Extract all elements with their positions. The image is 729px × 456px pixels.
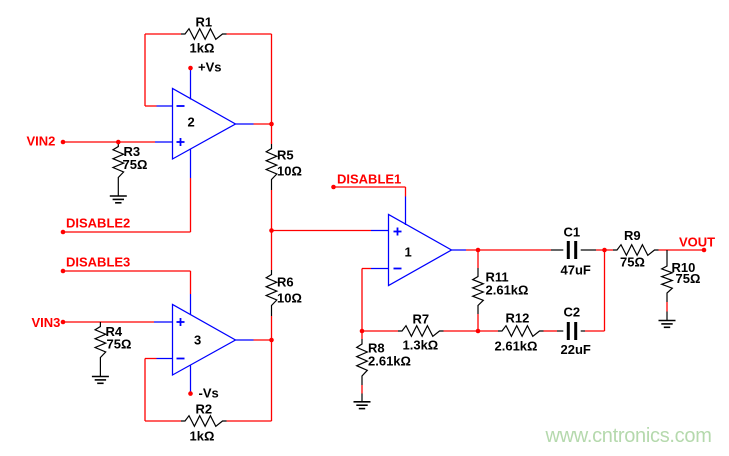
svg-text:DISABLE2: DISABLE2 xyxy=(66,216,130,231)
svg-text:47uF: 47uF xyxy=(561,263,591,278)
svg-text:R2: R2 xyxy=(196,402,213,417)
svg-text:R1: R1 xyxy=(196,15,213,30)
svg-text:1: 1 xyxy=(405,245,412,260)
svg-text:VIN2: VIN2 xyxy=(27,134,56,149)
svg-text:1.3kΩ: 1.3kΩ xyxy=(403,338,439,353)
svg-text:2.61kΩ: 2.61kΩ xyxy=(486,283,529,298)
svg-text:2: 2 xyxy=(188,115,195,130)
svg-text:10Ω: 10Ω xyxy=(277,291,302,306)
svg-text:10Ω: 10Ω xyxy=(277,164,302,179)
svg-text:DISABLE1: DISABLE1 xyxy=(337,172,401,187)
svg-text:22uF: 22uF xyxy=(561,342,591,357)
svg-text:DISABLE3: DISABLE3 xyxy=(66,255,130,270)
svg-text:C1: C1 xyxy=(564,225,581,240)
svg-text:75Ω: 75Ω xyxy=(620,255,645,270)
svg-text:R9: R9 xyxy=(624,228,641,243)
svg-text:2.61kΩ: 2.61kΩ xyxy=(368,354,411,369)
svg-text:75Ω: 75Ω xyxy=(676,271,701,286)
svg-text:75Ω: 75Ω xyxy=(107,337,132,352)
svg-text:-Vs: -Vs xyxy=(199,386,219,401)
svg-text:R5: R5 xyxy=(277,148,294,163)
svg-text:+Vs: +Vs xyxy=(198,60,222,75)
svg-text:VOUT: VOUT xyxy=(679,235,715,250)
svg-text:3: 3 xyxy=(194,333,201,348)
svg-text:www.cntronics.com: www.cntronics.com xyxy=(545,425,712,447)
svg-text:R6: R6 xyxy=(277,275,294,290)
svg-text:R7: R7 xyxy=(413,312,430,327)
svg-text:1kΩ: 1kΩ xyxy=(190,429,215,444)
svg-text:1kΩ: 1kΩ xyxy=(190,41,215,56)
svg-text:C2: C2 xyxy=(564,305,581,320)
svg-text:2.61kΩ: 2.61kΩ xyxy=(495,339,538,354)
svg-text:75Ω: 75Ω xyxy=(123,157,148,172)
svg-text:VIN3: VIN3 xyxy=(32,315,61,330)
svg-text:R12: R12 xyxy=(506,311,530,326)
